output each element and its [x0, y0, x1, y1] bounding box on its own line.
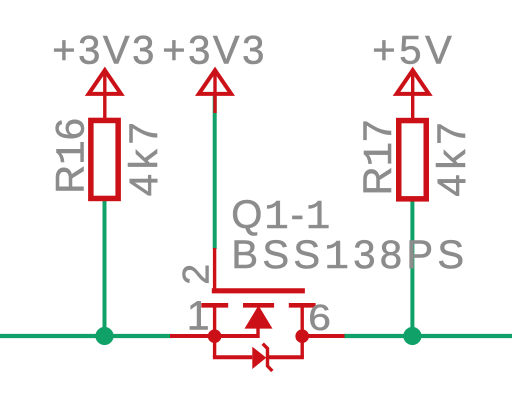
svg-text:4k7: 4k7: [430, 118, 474, 197]
drain stub wire to right: [302, 334, 344, 338]
svg-text:+3V3: +3V3: [52, 29, 157, 73]
power symbol +3V3 (middle): [199, 69, 231, 113]
channel bar left (source): [201, 303, 228, 308]
wire: green vertical from R17 to bottom bus: [410, 199, 414, 336]
body arrow head (filled): [245, 306, 273, 329]
mosfet Q1-1 symbol: [170, 248, 345, 371]
loop bottom left segment: [213, 355, 252, 359]
pin label 6: [308, 298, 331, 338]
source stub wire to left: [170, 334, 260, 338]
resistor R17 body: [399, 121, 427, 199]
body diode anode triangle (filled): [252, 347, 266, 369]
gate bar: [212, 288, 305, 293]
svg-text:R17: R17: [356, 120, 404, 196]
svg-text:2: 2: [174, 264, 216, 285]
pin 1 vertical + loop left: [213, 307, 216, 357]
resistor R16 body: [91, 120, 118, 198]
junction dot (green, right bus / R17): [403, 327, 421, 345]
svg-text:+5V: +5V: [372, 29, 455, 73]
channel bar right (drain): [289, 303, 316, 308]
svg-text:R16: R16: [48, 118, 96, 194]
wire: green vertical from +3V3 (middle) to Q1 pin2: [213, 96, 217, 249]
pin 6 vertical + loop right: [301, 307, 304, 357]
junction dot (green, left bus / R16): [95, 327, 113, 345]
channel bar middle (body): [243, 303, 274, 308]
pin 2 wire (gate lead): [213, 248, 216, 291]
zener cathode bar with bent ends: [263, 344, 273, 371]
body arrow stem: [256, 327, 259, 338]
svg-text:BSS138PS: BSS138PS: [231, 233, 468, 281]
svg-text:1: 1: [187, 293, 210, 339]
wire: green bottom bus left segment: [0, 334, 172, 338]
junction dot (red, pin6): [295, 329, 309, 343]
loop bottom right segment: [268, 355, 304, 359]
svg-text:6: 6: [308, 298, 331, 338]
junction dot (red, pin1): [208, 329, 222, 343]
svg-text:+3V3: +3V3: [162, 29, 267, 73]
power symbol +3V3 (left): [89, 69, 121, 118]
svg-text:4k7: 4k7: [122, 117, 166, 196]
wire: green vertical from R16 to bottom bus: [103, 199, 107, 336]
power symbol +5V: [397, 69, 429, 118]
wire: green bottom bus right segment: [344, 334, 512, 338]
